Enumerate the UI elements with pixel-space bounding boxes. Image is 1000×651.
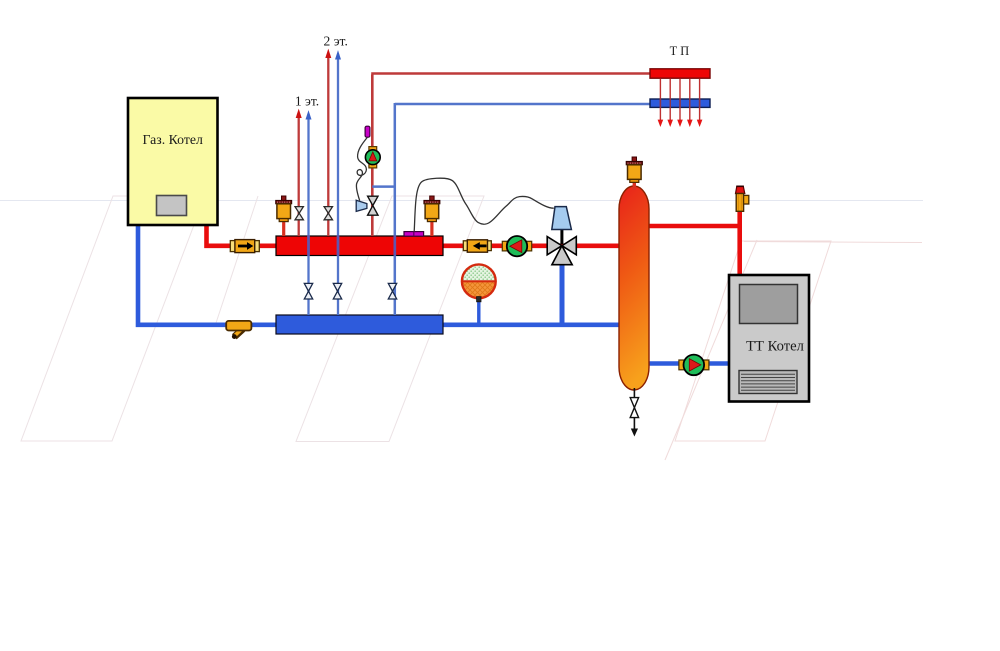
TT boiler bbox=[729, 275, 809, 402]
wire: drop crossing tint over return bar bbox=[660, 98, 699, 108]
background horizontal guide line bbox=[0, 200, 923, 202]
wire: expansion vessel stub (blue) bbox=[477, 299, 480, 325]
background line top right bbox=[744, 242, 922, 243]
underfloor heating supply bar (red) bbox=[650, 69, 710, 78]
valve on underfloor return riser bbox=[388, 283, 396, 299]
svg-text:2 эт.: 2 эт. bbox=[324, 34, 348, 49]
air vent on red manifold right stub bbox=[430, 222, 433, 236]
3-way mixing valve bbox=[547, 237, 576, 265]
thermostatic valve actuator cone bbox=[356, 200, 367, 211]
pump on main supply line bbox=[502, 236, 531, 256]
valve on 1st floor return bbox=[304, 283, 312, 299]
svg-text:Газ. Котел: Газ. Котел bbox=[143, 132, 203, 147]
red manifold (supply collector) bbox=[276, 236, 443, 256]
wire: 1st floor return riser (blue) bbox=[307, 118, 309, 315]
svg-text:1 эт.: 1 эт. bbox=[295, 94, 319, 109]
valve on 2nd floor return bbox=[333, 283, 341, 299]
node: 2nd floor supply arrowhead bbox=[325, 49, 331, 58]
underfloor heating return bar (blue) bbox=[650, 99, 710, 107]
capillary wire head to actuator bbox=[356, 137, 367, 200]
Y-strainer on return line bbox=[226, 321, 251, 339]
background pink diagonal right bbox=[665, 240, 757, 460]
check valve on gas boiler supply bbox=[230, 240, 259, 253]
blue manifold (return collector) bbox=[276, 315, 443, 334]
background parallelogram right bbox=[675, 241, 831, 441]
air vent on red manifold left bbox=[276, 196, 292, 222]
expansion vessel bbox=[462, 264, 496, 301]
wire: riser crossing tint over red manifold bbox=[309, 235, 395, 255]
node: 1st floor supply arrowhead bbox=[296, 109, 302, 118]
valve on 1st floor supply bbox=[295, 207, 303, 220]
wire: gas boiler supply pipe (red) bbox=[204, 224, 276, 246]
hydraulic separator bbox=[619, 186, 649, 390]
wire: 2nd floor supply riser (red) bbox=[327, 56, 329, 236]
svg-text:ТТ Котел: ТТ Котел bbox=[746, 339, 804, 355]
svg-text:Т П: Т П bbox=[670, 44, 690, 58]
wire: mixing drop from 3-way valve to return (blue) bbox=[560, 253, 565, 327]
background parallelogram left bbox=[21, 196, 205, 441]
strap-on sensor pad (magenta) bbox=[404, 232, 424, 237]
gas boiler bbox=[128, 98, 218, 225]
drain valve under separator bbox=[630, 388, 638, 437]
background diagonal middle-left bbox=[215, 196, 258, 326]
3-way valve thermal actuator cone bbox=[552, 207, 572, 230]
wire: 1st floor supply riser (red) bbox=[298, 116, 300, 236]
wire: gas boiler return pipe (blue) bbox=[136, 224, 276, 325]
wire: separator to TT boiler return (blue) bbox=[647, 361, 730, 366]
remote setpoint head (magenta) bbox=[365, 126, 370, 137]
3-way mixing valve stem bbox=[560, 208, 563, 244]
wire: underfloor heating supply riser and top run (red) bbox=[371, 74, 650, 237]
wire: main return line manifold to separator (blue) bbox=[443, 322, 620, 327]
pump on TT boiler return bbox=[679, 355, 709, 376]
wire: 2nd floor return riser (blue) bbox=[337, 58, 339, 315]
valve on 2nd floor supply bbox=[324, 207, 332, 220]
wire: mixing stub to pump suction (blue) bbox=[372, 185, 395, 188]
wire: main supply line manifold to separator (red) bbox=[443, 244, 620, 249]
wire: separator to TT boiler supply (red) bbox=[647, 211, 740, 276]
underfloor heating loop drops bbox=[660, 79, 699, 121]
air vent on red manifold right bbox=[424, 196, 440, 222]
node: 1st floor return arrowhead bbox=[306, 110, 312, 119]
safety valve at TT boiler bbox=[736, 186, 749, 211]
capillary wire sensor to 3-way actuator bbox=[414, 178, 554, 231]
air vent on separator bbox=[626, 157, 642, 182]
node: 2nd floor return arrowhead bbox=[335, 50, 341, 59]
thermostatic valve on underfloor riser bbox=[368, 196, 378, 215]
wire: underfloor heating return run and riser (blue) bbox=[395, 103, 650, 315]
check valve on main supply line bbox=[463, 240, 491, 252]
background parallelogram middle bbox=[296, 196, 484, 442]
air vent on separator stub bbox=[633, 182, 636, 190]
air vent on red manifold left stub bbox=[282, 222, 285, 236]
underfloor drop arrowheads bbox=[658, 120, 703, 127]
pump on underfloor riser bbox=[365, 147, 380, 168]
